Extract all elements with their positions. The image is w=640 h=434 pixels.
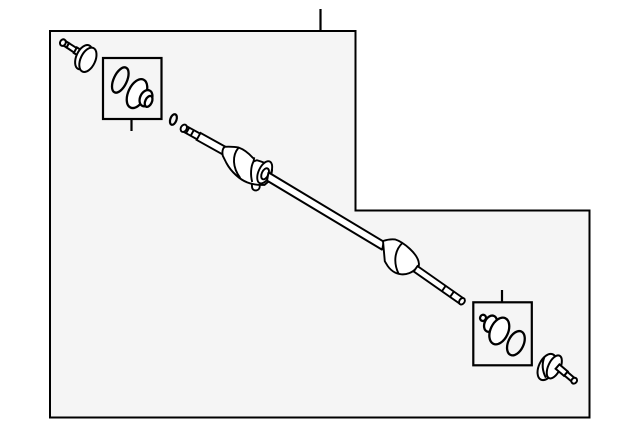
callout tick above box 2 [501, 290, 503, 302]
boot clamp ring in box 2 [503, 328, 528, 358]
parts box 2 (outer boot kit) [473, 302, 532, 365]
narrow tip segment of stud shaft [564, 372, 574, 381]
boot fold line on outer joint [395, 243, 402, 274]
diagram panel outline [50, 31, 590, 418]
stud tip [59, 38, 67, 47]
cap back of stud [534, 351, 560, 383]
cap back rim [72, 42, 96, 72]
parts box 1 (inner boot kit) [103, 58, 162, 119]
housing edge line [251, 161, 254, 182]
inner cv joint (tripod housing with boot) [222, 147, 275, 191]
boot clamp ring in box 1 [109, 65, 132, 95]
boot fold line [234, 148, 240, 178]
axle inboard spline shaft [179, 123, 226, 154]
main shaft of stud [556, 364, 568, 376]
callout tick below box 1 [130, 120, 132, 132]
main shaft of stud [67, 43, 78, 53]
stud tip [570, 377, 578, 385]
narrow tip segment of stud shaft [62, 41, 69, 48]
stud bolt top-left [59, 38, 100, 74]
snap ring [169, 113, 179, 125]
callout leader tick top [319, 9, 321, 31]
axle outboard spline shaft [414, 266, 467, 306]
cv boot in box 2 [479, 314, 513, 348]
housing rim opening [260, 167, 271, 180]
cap face [544, 353, 565, 381]
cap inner crease [543, 357, 546, 378]
cv boot in box 1 [123, 76, 155, 111]
joint silhouette [222, 147, 272, 185]
outer joint bulge [383, 239, 419, 274]
retaining tab under housing [252, 182, 260, 191]
housing rim face [254, 159, 275, 186]
axle interconnecting shaft [267, 172, 384, 249]
stud bolt bottom-right [534, 351, 578, 385]
cap face [76, 45, 100, 75]
collar of stud [74, 47, 81, 55]
